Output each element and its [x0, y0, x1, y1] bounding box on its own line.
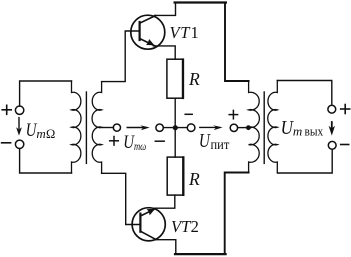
wire R divider vertical	[174, 98, 176, 157]
arrow UmOmega input	[16, 118, 22, 136]
transformer T1 primary winding	[72, 81, 82, 173]
label - (input)	[2, 142, 11, 144]
svg-text:UmΩ: UmΩ	[26, 120, 56, 141]
wire T1 center tap	[100, 127, 114, 129]
wire top rail to T2 top	[225, 3, 249, 81]
transistor VT2	[132, 208, 165, 241]
wire bottom rail to T2 bottom	[225, 173, 249, 254]
label + (output)	[341, 105, 350, 114]
label + above node d	[229, 110, 237, 118]
wire VT1 collector to top rail	[155, 3, 176, 15]
wire bottom rail	[175, 253, 226, 255]
wire R2 to VT2 emitter	[155, 195, 175, 208]
node b terminal	[156, 124, 163, 131]
label + (input)	[2, 105, 11, 114]
svg-text:VT1: VT1	[170, 23, 200, 42]
transformer T2 core	[263, 92, 265, 163]
arrow Umw	[127, 125, 150, 130]
wire node d to T2 tap	[238, 127, 250, 129]
node In- terminal	[15, 140, 23, 148]
wire T1 secondary top to VT1 base	[102, 31, 139, 82]
wire input top	[20, 81, 72, 106]
wire T2 secondary top to Out+	[277, 81, 332, 106]
junction dot T2 tap	[246, 125, 251, 130]
svg-text:Uпит: Uпит	[199, 131, 229, 152]
label - of Umw	[155, 140, 164, 142]
svg-text:Umвых: Umвых	[281, 118, 324, 139]
wire T2 secondary bottom to Out-	[278, 149, 332, 173]
arrow Upit	[200, 125, 223, 130]
node c terminal	[187, 124, 195, 132]
wire top rail	[175, 1, 226, 3]
arrow output	[329, 122, 335, 136]
label - above node c	[185, 113, 192, 115]
transistor VT1	[131, 15, 165, 49]
node In+ terminal	[15, 106, 23, 114]
svg-text:R: R	[188, 69, 200, 89]
resistor R1	[167, 59, 184, 98]
wire input bottom	[20, 149, 72, 173]
transformer T1 core	[85, 92, 87, 163]
node Out+ terminal	[328, 105, 336, 113]
svg-text:Umω: Umω	[123, 132, 146, 153]
node a terminal	[113, 124, 120, 131]
resistor R2	[167, 157, 184, 195]
svg-text:VT2: VT2	[171, 217, 199, 236]
wire VT1 emitter to R1	[154, 46, 176, 59]
node Out- terminal	[328, 141, 336, 149]
wire VT2 collector to bottom rail	[155, 240, 176, 254]
wire node b to node c	[163, 127, 187, 129]
transformer T2 primary winding	[249, 81, 260, 173]
node d terminal	[230, 124, 237, 131]
label - (output)	[341, 144, 349, 146]
label + of Umw	[110, 137, 119, 146]
transformer T1 secondary winding	[92, 82, 102, 174]
junction dot R divider	[173, 125, 178, 130]
svg-text:R: R	[188, 169, 200, 189]
transformer T2 secondary winding	[268, 81, 278, 174]
wire T1 secondary bottom to VT2 base	[102, 173, 140, 224]
